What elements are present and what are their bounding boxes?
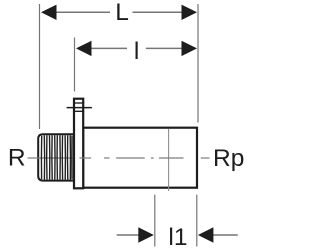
centerline segment through R leader and thread [28, 157, 73, 159]
arrowhead L right [182, 5, 198, 20]
svg-text:l1: l1 [168, 224, 187, 250]
dimension line l left segment [91, 47, 128, 49]
dimension line L right segment [133, 11, 183, 13]
dimension l1 right tail [213, 234, 238, 236]
collar cross tick [67, 107, 92, 109]
extension line right of dimensions L and l [197, 4, 199, 123]
internal thread depth line [168, 129, 170, 191]
dimension line L left segment [56, 11, 111, 13]
svg-text:R: R [8, 145, 26, 172]
press collar column [74, 99, 83, 189]
extension line right of dimension l1 [196, 195, 198, 247]
svg-text:l: l [134, 38, 139, 65]
collar internal line 2 [73, 110, 84, 112]
extension line left of dimension l [74, 38, 76, 92]
extension line left of dimension L [39, 4, 41, 129]
fitting body [83, 128, 197, 188]
svg-text:Rp: Rp [213, 145, 244, 172]
collar internal line 1 [73, 102, 84, 104]
dimension line l right segment [146, 47, 183, 49]
arrowhead l left [76, 41, 92, 56]
male thread R outline [38, 134, 74, 180]
arrowhead l1 left [138, 227, 154, 242]
arrowhead l right [182, 41, 198, 56]
arrowhead l1 right [198, 227, 214, 242]
dimension l1 left tail [117, 234, 139, 236]
thread hatch lines [41, 135, 72, 179]
centerline through fitting [79, 157, 209, 159]
arrowhead L left [41, 5, 57, 20]
svg-text:L: L [115, 0, 129, 26]
extension line left of dimension l1 [154, 195, 156, 247]
